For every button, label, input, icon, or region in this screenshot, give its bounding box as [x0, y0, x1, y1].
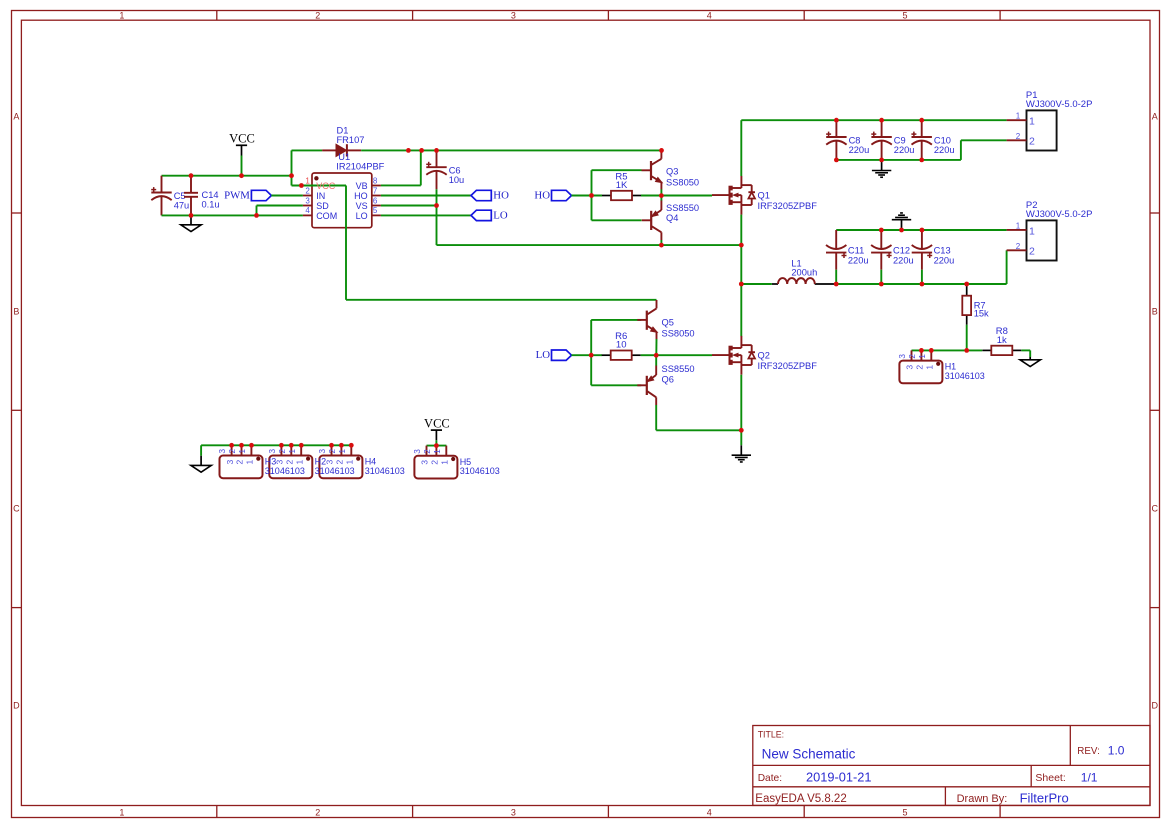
- svg-text:3: 3: [898, 354, 907, 359]
- junction: [659, 243, 664, 248]
- svg-text:D: D: [1151, 701, 1158, 711]
- svg-text:C: C: [13, 504, 20, 514]
- wire: [740, 375, 742, 446]
- wire: [966, 325, 968, 351]
- svg-text:1/1: 1/1: [1081, 770, 1098, 784]
- svg-text:1: 1: [918, 354, 927, 359]
- junction: [299, 443, 304, 448]
- junction: [879, 228, 884, 233]
- junction: [419, 148, 424, 153]
- wire: [162, 175, 292, 177]
- power flag VCC (net VCC): [229, 132, 255, 156]
- svg-text:10: 10: [616, 340, 627, 351]
- label H4: [365, 457, 405, 476]
- capacitor C12 220u: [871, 230, 914, 284]
- svg-text:HO: HO: [534, 189, 550, 201]
- label H1: [945, 362, 985, 381]
- svg-text:3: 3: [413, 449, 422, 454]
- svg-text:VB: VB: [356, 181, 368, 191]
- svg-text:1: 1: [238, 448, 247, 453]
- svg-text:Q3: Q3: [666, 166, 678, 176]
- svg-text:5: 5: [373, 206, 378, 215]
- wire: [291, 150, 293, 185]
- junction: [659, 193, 664, 198]
- svg-text:LO: LO: [536, 349, 551, 361]
- svg-text:Q5: Q5: [662, 317, 674, 327]
- svg-text:FilterPro: FilterPro: [1020, 790, 1069, 805]
- label H3: [265, 457, 305, 476]
- svg-text:2: 2: [228, 448, 237, 453]
- junction: [254, 213, 259, 218]
- wire: [836, 229, 1006, 231]
- svg-text:2: 2: [915, 365, 925, 370]
- port LO (input): [536, 349, 572, 361]
- svg-text:HO: HO: [354, 191, 368, 201]
- svg-text:220u: 220u: [893, 256, 914, 266]
- svg-text:31046103: 31046103: [315, 466, 355, 476]
- svg-text:LO: LO: [493, 209, 508, 221]
- svg-text:B: B: [13, 307, 19, 317]
- svg-text:Date:: Date:: [758, 773, 782, 784]
- wire: [590, 320, 592, 355]
- svg-text:3: 3: [511, 11, 516, 21]
- wire: [655, 405, 657, 430]
- svg-text:PWM: PWM: [224, 189, 250, 201]
- svg-text:5: 5: [902, 11, 907, 21]
- wire: [740, 120, 742, 176]
- junction: [239, 443, 244, 448]
- ground: [190, 215, 192, 224]
- wire: [427, 445, 447, 447]
- svg-text:1K: 1K: [616, 180, 628, 191]
- svg-text:U1: U1: [338, 152, 350, 162]
- svg-text:C: C: [1151, 504, 1158, 514]
- wire: [381, 195, 471, 197]
- transistor Q1 IRF3205ZPBF: [712, 176, 755, 215]
- junction: [329, 443, 334, 448]
- wire: [381, 184, 421, 186]
- svg-text:HO: HO: [493, 189, 509, 201]
- ground triangle: [181, 225, 201, 232]
- capacitor C10 220u: [911, 120, 954, 160]
- resistor R8 1k: [982, 326, 1021, 355]
- svg-text:3: 3: [305, 196, 310, 205]
- inductor L1 200uh: [772, 259, 835, 285]
- svg-text:Q4: Q4: [666, 213, 678, 223]
- connector H4 31046103: [318, 445, 362, 478]
- svg-text:2: 2: [1029, 136, 1035, 148]
- junction: [434, 443, 439, 448]
- wire: [200, 445, 202, 456]
- capacitor C11 220u: [826, 230, 869, 284]
- junction: [964, 348, 969, 353]
- svg-text:LO: LO: [356, 211, 368, 221]
- svg-text:C11: C11: [848, 246, 864, 256]
- ground: [881, 160, 883, 171]
- wire: [435, 440, 437, 445]
- junction: [834, 158, 839, 163]
- svg-text:4: 4: [305, 206, 310, 215]
- svg-text:IRF3205ZPBF: IRF3205ZPBF: [758, 361, 818, 371]
- junction: [229, 443, 234, 448]
- svg-text:3: 3: [318, 448, 327, 453]
- svg-text:C14: C14: [202, 190, 219, 200]
- svg-text:3: 3: [268, 448, 277, 453]
- ground (earth): [732, 455, 751, 462]
- svg-text:WJ300V-5.0-2P: WJ300V-5.0-2P: [1026, 99, 1093, 110]
- svg-text:SD: SD: [316, 201, 329, 211]
- capacitor C8 220u: [826, 120, 869, 160]
- connector H1 31046103: [898, 350, 942, 383]
- junction: [879, 118, 884, 123]
- svg-text:1: 1: [245, 459, 255, 464]
- svg-text:1: 1: [305, 176, 310, 185]
- wire: [961, 139, 1007, 141]
- svg-text:220u: 220u: [934, 256, 955, 266]
- junction: [289, 443, 294, 448]
- port LO (output): [471, 209, 508, 221]
- wire: [381, 214, 471, 216]
- connector H5 31046103: [413, 446, 457, 479]
- svg-text:3: 3: [905, 365, 915, 370]
- svg-text:15k: 15k: [974, 309, 989, 319]
- svg-text:1: 1: [1016, 112, 1021, 121]
- svg-text:2: 2: [335, 459, 345, 464]
- svg-text:1: 1: [338, 448, 347, 453]
- capacitor C9 220u: [871, 120, 914, 160]
- wire: [641, 354, 657, 356]
- ground (earth): [872, 171, 891, 178]
- svg-text:C13: C13: [934, 246, 951, 256]
- svg-text:A: A: [13, 112, 19, 122]
- wire: [345, 186, 347, 300]
- svg-text:1k: 1k: [997, 335, 1007, 346]
- wire: [656, 354, 712, 356]
- port HO (output): [471, 189, 509, 201]
- wire: [641, 195, 661, 197]
- transistor Q4 SS8550: [642, 201, 662, 241]
- transistor Q6 SS8550: [637, 366, 656, 406]
- svg-text:WJ300V-5.0-2P: WJ300V-5.0-2P: [1026, 209, 1093, 220]
- junction: [239, 173, 244, 178]
- junction: [919, 348, 924, 353]
- svg-text:31046103: 31046103: [945, 371, 985, 381]
- svg-text:New Schematic: New Schematic: [762, 746, 856, 761]
- junction: [279, 443, 284, 448]
- svg-text:Sheet:: Sheet:: [1035, 772, 1065, 784]
- svg-text:C12: C12: [893, 246, 910, 256]
- svg-text:SS8550: SS8550: [666, 203, 699, 213]
- wire: [661, 195, 712, 197]
- svg-text:1: 1: [440, 460, 450, 465]
- junction: [339, 443, 344, 448]
- junction: [589, 193, 594, 198]
- svg-text:220u: 220u: [848, 256, 869, 266]
- transistor Q5 SS8050: [637, 300, 660, 339]
- wire: [1006, 250, 1008, 284]
- svg-text:2: 2: [278, 448, 287, 453]
- wire: [836, 159, 961, 161]
- junction: [654, 353, 659, 358]
- ground triangle: [1020, 360, 1040, 367]
- svg-text:REV:: REV:: [1077, 746, 1100, 757]
- wire: [572, 354, 603, 356]
- ground (earth): [892, 213, 911, 220]
- wire: [590, 355, 592, 385]
- op-amp U1 IR2104PBF (body): [303, 173, 381, 228]
- svg-text:3: 3: [420, 460, 430, 465]
- transistor Q2 IRF3205ZPBF: [712, 336, 755, 375]
- svg-text:2: 2: [235, 459, 245, 464]
- junction: [189, 213, 194, 218]
- junction: [434, 148, 439, 153]
- svg-text:1: 1: [1016, 221, 1021, 230]
- resistor R6 10: [602, 331, 641, 360]
- wire: [835, 283, 1007, 285]
- wire: [660, 189, 662, 201]
- svg-text:VCC: VCC: [229, 132, 255, 146]
- svg-text:1: 1: [345, 459, 355, 464]
- svg-text:2: 2: [1029, 246, 1035, 258]
- wire: [592, 169, 642, 171]
- wire: [591, 196, 593, 221]
- label H5: [460, 457, 500, 476]
- svg-text:2: 2: [328, 448, 337, 453]
- svg-text:220u: 220u: [894, 145, 915, 155]
- svg-text:SS8550: SS8550: [662, 364, 695, 374]
- junction: [739, 243, 744, 248]
- junction: [739, 428, 744, 433]
- ground: [1029, 357, 1031, 360]
- svg-text:Q2: Q2: [758, 351, 770, 361]
- svg-text:3: 3: [218, 448, 227, 453]
- svg-text:C8: C8: [849, 135, 861, 145]
- resistor R5 1K: [602, 171, 641, 200]
- svg-text:3: 3: [325, 459, 335, 464]
- svg-text:1: 1: [119, 11, 124, 21]
- svg-text:A: A: [1152, 112, 1158, 122]
- svg-text:4: 4: [707, 11, 712, 21]
- junction: [964, 282, 969, 287]
- junction: [189, 173, 194, 178]
- junction: [739, 282, 744, 287]
- wire: [740, 215, 742, 337]
- svg-text:C9: C9: [894, 135, 906, 145]
- capacitor C13 220u: [912, 230, 955, 284]
- svg-text:COM: COM: [316, 211, 337, 221]
- wire: [655, 339, 657, 355]
- svg-text:VS: VS: [356, 201, 368, 211]
- svg-text:Q1: Q1: [758, 191, 770, 201]
- svg-text:6: 6: [373, 196, 378, 205]
- svg-text:SS8050: SS8050: [662, 328, 695, 338]
- wire: [162, 214, 303, 216]
- wire: [741, 283, 772, 285]
- svg-text:10u: 10u: [449, 175, 465, 185]
- capacitor C5 47u: [151, 176, 189, 216]
- svg-text:31046103: 31046103: [460, 466, 500, 476]
- capacitor C6 10u: [426, 150, 464, 189]
- svg-text:4: 4: [707, 807, 712, 817]
- svg-text:EasyEDA V5.8.22: EasyEDA V5.8.22: [755, 793, 846, 805]
- svg-text:200uh: 200uh: [791, 267, 817, 277]
- svg-text:2019-01-21: 2019-01-21: [806, 769, 871, 784]
- junction: [920, 228, 925, 233]
- svg-text:C5: C5: [174, 191, 186, 201]
- svg-text:47u: 47u: [174, 200, 190, 210]
- connector P1 WJ300V-5.0-2P: [1007, 90, 1093, 151]
- svg-text:2: 2: [908, 354, 917, 359]
- wire: [1021, 349, 1030, 351]
- svg-text:1: 1: [433, 449, 442, 454]
- wire: [656, 429, 741, 431]
- ground: [740, 445, 742, 455]
- resistor R7 15k: [962, 286, 989, 325]
- svg-text:2: 2: [305, 186, 310, 195]
- svg-text:3: 3: [225, 459, 235, 464]
- wire: [1029, 350, 1031, 357]
- svg-text:2: 2: [1016, 132, 1021, 141]
- svg-text:D: D: [13, 701, 20, 711]
- junction: [434, 203, 439, 208]
- wire: [912, 349, 983, 351]
- connector P2 WJ300V-5.0-2P: [1007, 200, 1093, 261]
- wire: [201, 444, 351, 446]
- junction: [299, 183, 304, 188]
- svg-text:D1: D1: [337, 125, 349, 135]
- wire: [591, 170, 593, 195]
- ground: [200, 456, 202, 466]
- junction: [406, 148, 411, 153]
- wire: [381, 205, 437, 207]
- svg-text:31046103: 31046103: [365, 466, 405, 476]
- wire: [655, 355, 657, 365]
- junction: [659, 148, 664, 153]
- svg-text:2: 2: [285, 459, 295, 464]
- wire: [741, 119, 1006, 121]
- wire: [361, 149, 661, 151]
- junction: [349, 443, 354, 448]
- ground triangle: [191, 465, 211, 472]
- op-amp U1 IR2104PBF (pins text): [305, 152, 384, 221]
- svg-text:1: 1: [288, 448, 297, 453]
- wire: [346, 299, 657, 301]
- wire: [256, 206, 258, 216]
- svg-text:220u: 220u: [849, 145, 870, 155]
- junction: [249, 443, 254, 448]
- svg-text:IN: IN: [316, 191, 325, 201]
- svg-text:1: 1: [1029, 116, 1035, 128]
- wire: [660, 240, 662, 245]
- wire: [592, 219, 642, 221]
- svg-text:IR2104PBF: IR2104PBF: [336, 161, 384, 171]
- svg-text:IRF3205ZPBF: IRF3205ZPBF: [758, 201, 818, 211]
- junction: [589, 353, 594, 358]
- wire: [292, 185, 347, 187]
- ground: [901, 220, 903, 230]
- wire: [420, 150, 422, 185]
- wire: [241, 156, 243, 176]
- junction: [920, 282, 925, 287]
- capacitor C14 0.1u: [184, 176, 220, 216]
- label H2: [315, 457, 355, 476]
- connector H3 31046103: [218, 445, 262, 478]
- svg-text:2: 2: [430, 460, 440, 465]
- power flag VCC (net VCC): [424, 417, 450, 441]
- junction: [929, 348, 934, 353]
- svg-text:2: 2: [315, 11, 320, 21]
- svg-text:Q6: Q6: [662, 374, 674, 384]
- connector H2 31046103: [268, 445, 312, 478]
- svg-text:3: 3: [511, 807, 516, 817]
- svg-text:C10: C10: [934, 135, 951, 145]
- junction: [879, 158, 884, 163]
- port PWM: [224, 189, 271, 201]
- wire: [591, 384, 641, 386]
- svg-text:1.0: 1.0: [1108, 744, 1125, 758]
- svg-text:VCC: VCC: [424, 417, 450, 431]
- svg-text:7: 7: [373, 186, 378, 195]
- wire: [437, 244, 742, 246]
- svg-text:TITLE:: TITLE:: [758, 730, 784, 740]
- svg-text:1: 1: [1029, 225, 1035, 237]
- wire: [572, 195, 603, 197]
- svg-text:2: 2: [315, 807, 320, 817]
- svg-text:SS8050: SS8050: [666, 177, 699, 187]
- junction: [919, 158, 924, 163]
- svg-text:220u: 220u: [934, 145, 955, 155]
- svg-text:8: 8: [373, 176, 378, 185]
- junction: [289, 173, 294, 178]
- title block: [753, 726, 1150, 806]
- svg-text:0.1u: 0.1u: [202, 200, 220, 210]
- transistor Q3 SS8050: [642, 150, 665, 189]
- svg-text:2: 2: [1016, 242, 1021, 251]
- svg-text:31046103: 31046103: [265, 466, 305, 476]
- junction: [879, 282, 884, 287]
- svg-text:1: 1: [925, 365, 935, 370]
- svg-text:VCC: VCC: [316, 181, 336, 191]
- svg-text:1: 1: [119, 807, 124, 817]
- wire: [271, 195, 303, 197]
- svg-text:5: 5: [902, 807, 907, 817]
- junction: [834, 282, 839, 287]
- wire: [436, 189, 438, 245]
- svg-text:B: B: [1152, 307, 1158, 317]
- svg-text:FR107: FR107: [337, 135, 365, 145]
- junction: [834, 118, 839, 123]
- port HO (input): [534, 189, 571, 201]
- svg-text:1: 1: [294, 459, 304, 464]
- wire: [257, 205, 303, 207]
- wire: [960, 140, 962, 160]
- svg-text:2: 2: [423, 449, 432, 454]
- junction: [899, 228, 904, 233]
- svg-text:Drawn By:: Drawn By:: [957, 793, 1008, 805]
- svg-text:C6: C6: [449, 166, 461, 176]
- wire: [292, 149, 323, 151]
- junction: [919, 118, 924, 123]
- wire: [591, 319, 641, 321]
- diode D1 FR107: [322, 125, 364, 156]
